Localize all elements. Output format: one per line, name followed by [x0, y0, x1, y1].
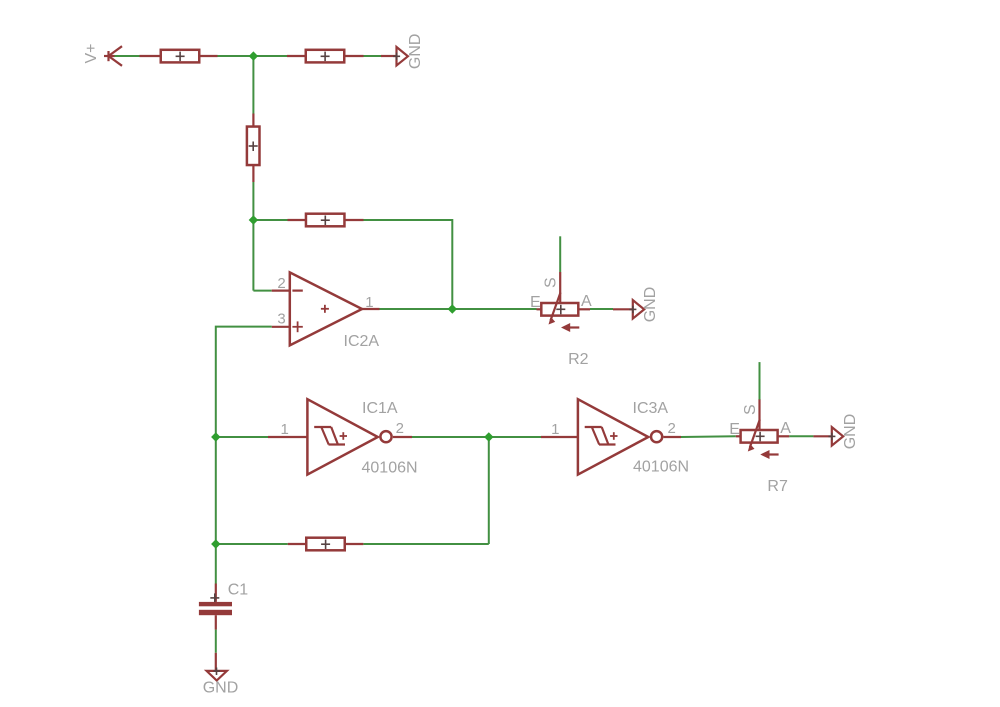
ground GND top [381, 34, 424, 70]
svg-text:A: A [581, 293, 592, 310]
svg-text:1: 1 [280, 421, 288, 438]
svg-text:V+: V+ [83, 43, 100, 63]
svg-text:S: S [742, 404, 759, 415]
svg-text:2: 2 [668, 420, 676, 437]
svg-text:2: 2 [277, 275, 285, 292]
ground GND at R7 [813, 414, 858, 450]
junction node B [484, 432, 493, 441]
wire V+ to R3 [115, 55, 140, 57]
svg-text:R2: R2 [568, 351, 589, 368]
wire R6 to opamp output [364, 220, 453, 309]
wire IC1A output net [412, 436, 541, 438]
resistor R5 (vertical) [247, 114, 260, 183]
svg-text:1: 1 [551, 421, 559, 438]
svg-text:3: 3 [277, 310, 285, 327]
supply symbol V+ [83, 43, 122, 65]
junction node V1 [249, 51, 258, 60]
capacitor C1 [199, 581, 248, 629]
svg-text:IC2A: IC2A [344, 333, 380, 350]
wire into opamp pin 2 [253, 290, 271, 292]
junction node C [211, 539, 220, 548]
svg-text:R7: R7 [767, 478, 788, 495]
wire opamp pin 3 net [216, 327, 272, 544]
wire node B down [488, 437, 490, 544]
resistor R8 (bottom feedback) [288, 538, 364, 551]
inverter IC3A [541, 399, 689, 475]
wire R4 to GND [364, 55, 382, 57]
svg-text:GND: GND [203, 680, 239, 697]
svg-text:1: 1 [365, 294, 373, 311]
wire opamp output to R2 [380, 308, 537, 310]
svg-text:2: 2 [396, 420, 404, 437]
wire R8 to node B [363, 543, 488, 545]
wire R5 to node FB [252, 182, 254, 291]
svg-text:E: E [530, 294, 541, 311]
resistor R6 (feedback) [288, 214, 364, 227]
svg-text:40106N: 40106N [633, 459, 689, 476]
junction node FB [249, 215, 258, 224]
ground GND at R2 [613, 287, 659, 323]
wire node FB to R6 [253, 219, 287, 221]
svg-text:IC3A: IC3A [633, 400, 669, 417]
svg-text:40106N: 40106N [362, 459, 418, 476]
wire R7 S stub [759, 362, 761, 399]
ground GND bottom [203, 653, 239, 697]
svg-text:GND: GND [842, 414, 859, 450]
trimmer R2 [530, 272, 592, 368]
wire R7 to GND [789, 435, 813, 437]
inverter IC1A [268, 399, 418, 476]
svg-text:GND: GND [407, 34, 424, 70]
svg-text:C1: C1 [228, 581, 249, 598]
resistor R3 [140, 50, 218, 63]
wire node C down to C1 [215, 544, 217, 584]
wire node C to R8 [216, 543, 288, 545]
wire IC1A input net [216, 436, 268, 438]
wire node V1 down to R5 [252, 56, 254, 114]
svg-text:S: S [543, 277, 560, 288]
svg-text:A: A [780, 420, 791, 437]
wire R2 S stub [559, 236, 561, 272]
op-amp IC2A [272, 272, 380, 349]
svg-text:IC1A: IC1A [362, 400, 398, 417]
junction node A [211, 432, 220, 441]
trimmer R7 [729, 399, 791, 495]
wire C1 to GND [215, 630, 217, 653]
junction opamp output [448, 304, 457, 313]
svg-text:E: E [729, 421, 740, 438]
wire IC3A output to R7 [681, 435, 736, 438]
svg-text:GND: GND [642, 287, 659, 323]
wire R3 to node V1 [218, 55, 288, 57]
resistor R4 [287, 50, 364, 63]
wire R2 to GND [590, 308, 613, 310]
